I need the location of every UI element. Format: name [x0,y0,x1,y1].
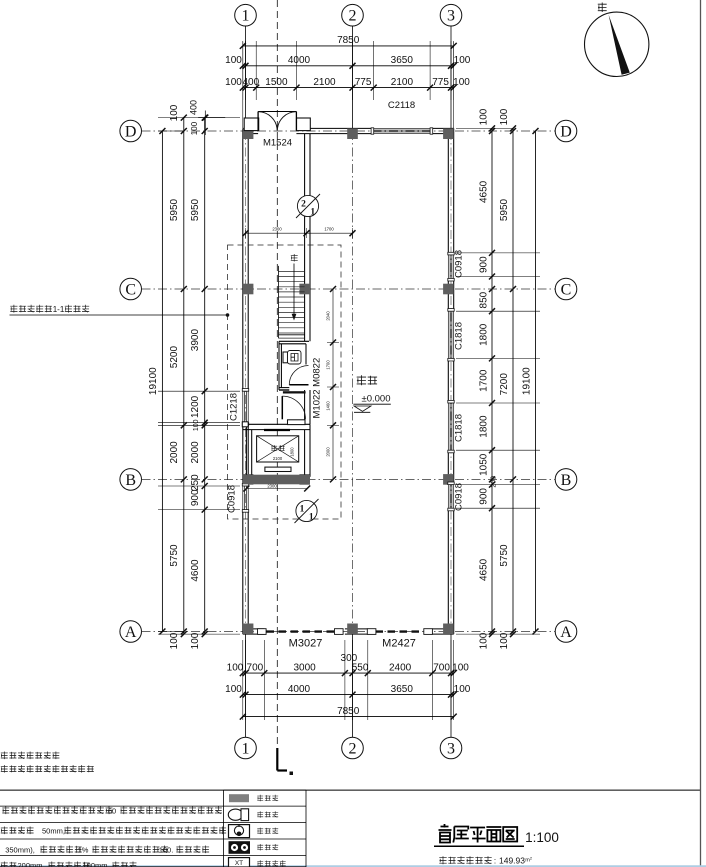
elevator shaft right wall [309,424,311,477]
svg-text:100: 100 [499,632,510,649]
svg-text:100: 100 [227,663,244,674]
svg-text:D: D [125,124,137,141]
svg-text::: : [494,857,496,866]
svg-text:C1218: C1218 [229,393,240,421]
elevator pit bottom wall gray band [243,475,310,485]
svg-text:2000: 2000 [190,441,201,464]
north label BEI [598,3,607,13]
grid line 1 vertical stem bottom [245,634,247,737]
bottom extension lines [242,640,244,720]
leader line to dashed box [10,314,228,316]
svg-text:1-1: 1-1 [53,305,65,314]
toilet room top wall [279,340,309,342]
grid bubble 2 [342,737,364,759]
note row2 text [1,827,34,835]
elevator bottom dim 2300 [246,488,307,490]
legend row5 label kongtiaowaiji [257,860,285,867]
bottom dim chain 2 (100/4000/3650/100) [243,694,454,696]
svg-text:700: 700 [433,663,450,674]
grid line 1 dash-dot through plan [245,131,247,632]
svg-text:5750: 5750 [499,544,510,567]
bottom page edge light blue [0,865,706,867]
interior wall grid1-2 vertical [304,134,306,342]
top dim chain 1 (7850 overall) [243,45,454,47]
svg-text:1800: 1800 [479,323,490,346]
grid bubble D [120,120,142,142]
svg-text:2: 2 [349,741,357,758]
grid bubble 3 [440,737,462,759]
svg-text:100: 100 [452,663,469,674]
window C1818 right wall lower [447,403,449,450]
svg-text:1700: 1700 [326,360,331,370]
porch wall stub left of entrance [244,118,259,131]
elevator shaft top wall notch right [288,420,306,425]
svg-text:550: 550 [352,663,369,674]
grid bubble 2 [342,4,364,26]
top wall (grid D) outer+inner lines [243,127,258,129]
grid line C dash-dot [142,288,556,290]
svg-text:XT: XT [235,860,243,867]
svg-text:100: 100 [225,77,242,88]
svg-text:100: 100 [499,108,510,125]
svg-text:5950: 5950 [169,198,180,221]
top dim chain 2 (100/4000/3650/100) [243,65,454,67]
svg-text:2000: 2000 [169,441,180,464]
svg-text:C0918: C0918 [227,485,238,513]
svg-text:M1524: M1524 [263,138,292,149]
svg-text:1: 1 [309,513,314,523]
svg-text:2100: 2100 [391,77,414,88]
svg-text:B: B [561,472,572,489]
svg-text:2400: 2400 [389,663,412,674]
svg-text:100: 100 [479,632,490,649]
grid bubble A [120,621,142,643]
svg-text:2: 2 [301,200,306,210]
legend row1 label jiegouzhu [257,795,278,802]
column D-2 [347,128,358,139]
svg-text:1800: 1800 [290,447,295,457]
svg-text:7850: 7850 [337,706,360,717]
column A-3 [443,624,454,635]
elevator shaft top wall [243,423,310,425]
svg-text:850: 850 [479,291,490,308]
grid line D dash-dot [142,130,556,132]
svg-text:5950: 5950 [190,198,201,221]
svg-text:1700: 1700 [324,227,334,232]
column D-1 [243,128,254,139]
section bubble 2/1 upper [297,195,318,216]
right dim chain outer (19100) [535,131,537,632]
right dim chain inner (100/4650/900/400/850/1800/1700/1800/1050/200/900/4650/100) [491,128,493,634]
wall band below toilet room [283,391,306,393]
window C0918 left wall lower [242,486,244,510]
svg-text:3: 3 [447,8,455,25]
stair treads [279,271,305,338]
svg-text:C: C [125,282,136,299]
svg-text:100mm: 100mm [82,861,107,867]
svg-text:4000: 4000 [288,55,311,66]
interior dim line y233 (2300/1700) [246,232,353,234]
door M0822 leaf [289,384,308,386]
interior dim line x333 (2040/1700/1460/2000) [332,289,334,479]
title: first floor plan (5 big CJK glyphs) [439,824,452,843]
legend table vertical line right [305,790,307,867]
svg-text:100: 100 [190,632,201,649]
svg-text:1: 1 [242,8,250,25]
svg-text:350mm),: 350mm), [5,846,35,855]
svg-text:400: 400 [242,77,259,88]
svg-text:1: 1 [300,505,305,515]
grid bubble A [555,621,577,643]
svg-text:7850: 7850 [337,35,360,46]
section line 1-1 vertical dashed [276,0,278,748]
svg-text:3650: 3650 [391,684,414,695]
column C-1 [243,284,254,295]
svg-text:M2427: M2427 [382,638,416,650]
porch mini dim line 400 [198,117,225,119]
window C1818 right wall upper [447,311,449,358]
garage label (che ku) [357,375,377,385]
svg-text:900: 900 [479,488,490,505]
svg-text:100: 100 [190,121,199,135]
legend row3 label xilianpen [257,828,278,835]
legend row2: toilet icon [228,809,242,820]
svg-text:2100: 2100 [273,456,283,461]
left dim chain outer (19100) [161,131,163,632]
svg-text:200: 200 [491,476,498,488]
svg-text:5950: 5950 [499,198,510,221]
svg-text:100: 100 [454,55,471,66]
legend row4 label meiqizao [257,844,278,851]
bottom wall (grid A) segments at columns [243,633,264,635]
toilet room left wall [278,341,280,390]
elevator door sill [264,429,290,431]
grid line 2 vertical stem bottom [352,634,354,737]
svg-text:C: C [561,282,572,299]
svg-text:C0918: C0918 [454,250,465,278]
legend table row lines [0,805,306,807]
column C-wall [299,284,310,295]
svg-text:2300: 2300 [272,227,282,232]
svg-text:100.: 100. [159,846,174,855]
column A-1 [243,624,254,635]
window C0918 right wall lower [447,485,449,509]
svg-text:B: B [125,472,136,489]
toilet fixture tank [283,352,288,363]
svg-text:2100: 2100 [313,77,336,88]
door M1524 left leaf [257,112,259,131]
door M1022 swing arc [282,396,305,419]
table top border full width [0,789,701,791]
door M1524 double swing arcs [258,112,277,131]
svg-text:1460: 1460 [326,401,331,411]
note line: ...installed in pipe shaft [1,752,60,760]
svg-text:3900: 3900 [190,329,201,352]
door M2427 rolling shutter dashed line [376,630,425,632]
grid bubble 1 [235,737,257,759]
svg-text:M1022 M0822: M1022 M0822 [312,358,323,419]
elevator label dianti [271,445,284,452]
top extension lines [242,41,244,100]
column B-1 [243,474,254,485]
stair label UP (shang) [291,254,298,262]
section bubble 1/1 lower [296,500,317,521]
svg-text:C0918: C0918 [454,483,465,511]
grid bubble B [555,469,577,491]
svg-text:3: 3 [447,741,455,758]
svg-text:50mm,: 50mm, [42,827,65,836]
svg-text:250: 250 [190,474,201,491]
toilet room right wall upper [305,344,307,365]
title underline [434,845,524,847]
window C1218 left wall [242,391,244,423]
note line: ...main units on balcony and roof [1,765,94,773]
door M1022 leaf [281,396,283,419]
svg-text:3650: 3650 [391,55,414,66]
legend row1: structural column swatch [229,794,249,802]
column A-2 [347,624,358,635]
svg-text:1: 1 [310,208,315,218]
svg-text:2040: 2040 [326,311,331,321]
svg-text:1800: 1800 [479,415,490,438]
grid line 3 vertical stem bottom [450,634,452,737]
note: stair detail see 1-1 section (CJK) [10,305,52,313]
svg-text:775: 775 [355,77,372,88]
legend table vertical line left [224,789,306,791]
svg-text:2300: 2300 [267,483,277,488]
svg-text:C1818: C1818 [454,322,465,350]
left extension lines [158,117,240,119]
right page border [700,0,702,867]
svg-text:100: 100 [169,632,180,649]
left dim chain inner (5950/3900/1200/100/2000/250/900/4600) [204,118,206,635]
svg-text:4000: 4000 [288,684,311,695]
stair left stringer [278,266,280,338]
north arrow needle [609,15,630,75]
svg-text:60: 60 [108,807,116,816]
svg-text:A: A [560,624,572,641]
stair bottom landing edge [279,334,305,336]
elevator shaft top wall notch left [242,422,248,427]
svg-text:775: 775 [432,77,449,88]
svg-text:100: 100 [454,684,471,695]
porch wall stub right of entrance [297,118,311,131]
grid line 1 vertical stem top [245,26,247,128]
door M0822 swing arc [289,366,308,385]
note row4 text [1,862,17,867]
svg-text:±0.000: ±0.000 [362,394,391,405]
grid line 2 vertical stem top [352,26,354,128]
right wall (grid 3) outer+inner lines [453,128,455,255]
svg-text:1: 1 [242,741,250,758]
svg-text:100: 100 [453,77,470,88]
svg-text:100: 100 [479,108,490,125]
elevator cab with cross [257,436,299,462]
svg-text:5750: 5750 [169,544,180,567]
legend row2 label zuobianqi [257,811,278,818]
left wall (grid 1) outer+inner lines [242,128,244,391]
grid bubble C [555,278,577,300]
svg-text:A: A [125,624,137,641]
svg-text:1050: 1050 [479,453,490,476]
window C0918 right wall upper [447,255,449,279]
column C-3 [443,284,454,295]
grid line 3 vertical stem top [450,26,452,128]
section cut mark at bottom of section line [276,748,278,771]
svg-text:100: 100 [225,55,242,66]
stair arrow head [292,314,297,321]
svg-text:1:100: 1:100 [525,830,559,845]
right extension lines [456,252,540,254]
column B-wall [299,474,310,485]
legend row5: AC outdoor unit icon [229,858,250,867]
bottom dim chain 3 (7850 overall) [243,716,454,718]
svg-text:700: 700 [247,663,264,674]
grid bubble 1 [235,4,257,26]
svg-text:1200: 1200 [190,395,201,418]
grid bubble C [120,278,142,300]
svg-text:19100: 19100 [148,367,159,395]
elevator counterweight [265,467,291,471]
toilet room bottom wall left segment [279,387,289,389]
door M1524 right leaf [295,112,297,131]
legend row3: wash basin icon [229,825,250,838]
svg-text:5200: 5200 [169,346,180,369]
elevator shaft left wall [245,424,247,477]
window C2118 top wall [374,127,430,129]
door M1524 head line [258,111,296,113]
svg-text:C1818: C1818 [454,414,465,442]
level triangle [354,406,371,411]
svg-text:900: 900 [479,256,490,273]
toilet fixture bowl [288,351,302,365]
svg-text:1500: 1500 [265,77,288,88]
svg-text:7200: 7200 [499,373,510,396]
svg-text:900: 900 [190,489,201,506]
svg-text:2: 2 [349,8,357,25]
column D-3 [443,128,454,139]
svg-text:19100: 19100 [522,367,533,395]
legend row4: gas stove icon [229,841,251,854]
grid line B dash-dot [142,478,556,480]
note row1 text [2,807,112,815]
grid bubble B [120,469,142,491]
svg-text:2000: 2000 [326,447,331,457]
subtitle area text (CJK) [439,856,491,864]
column B-3 [443,474,454,485]
bottom dim chain 1 (100/700/3000/300/550/2400/700/100) [243,672,454,674]
right dim chain mid (100/5950/7200/5750/100) [512,128,514,634]
svg-text:4650: 4650 [479,558,490,581]
grid bubble 3 [440,4,462,26]
svg-text:100: 100 [169,104,180,121]
svg-text:1700: 1700 [479,369,490,392]
svg-text:D: D [560,124,572,141]
north arrow circle [585,12,649,76]
top dim chain 3 (100/400/1500/2100/775/2100/775/100) [243,87,454,89]
svg-text:300: 300 [341,653,358,664]
grid bubble D [555,120,577,142]
grid line 3 dash-dot through plan [450,131,452,632]
svg-text:400: 400 [189,100,199,115]
svg-text:149.93: 149.93 [499,856,525,866]
svg-text:4600: 4600 [190,559,201,582]
grid line A dash-dot [142,631,556,633]
svg-text:200mm: 200mm [17,861,42,867]
svg-text:3000: 3000 [293,663,316,674]
dashed detail box around stair/elevator [228,245,342,519]
svg-text:1%: 1% [78,846,89,855]
door M3027 rolling shutter dashed line [267,630,344,632]
svg-text:M3027: M3027 [289,638,323,650]
grid line 2 dash-dot through plan [352,131,354,632]
svg-text:C2118: C2118 [388,100,415,111]
svg-text:100: 100 [225,684,242,695]
left dim chain mid (100/5950/5200/2000/5750/100) [183,118,185,635]
svg-text:4650: 4650 [479,180,490,203]
stair up arrow line [293,264,295,317]
